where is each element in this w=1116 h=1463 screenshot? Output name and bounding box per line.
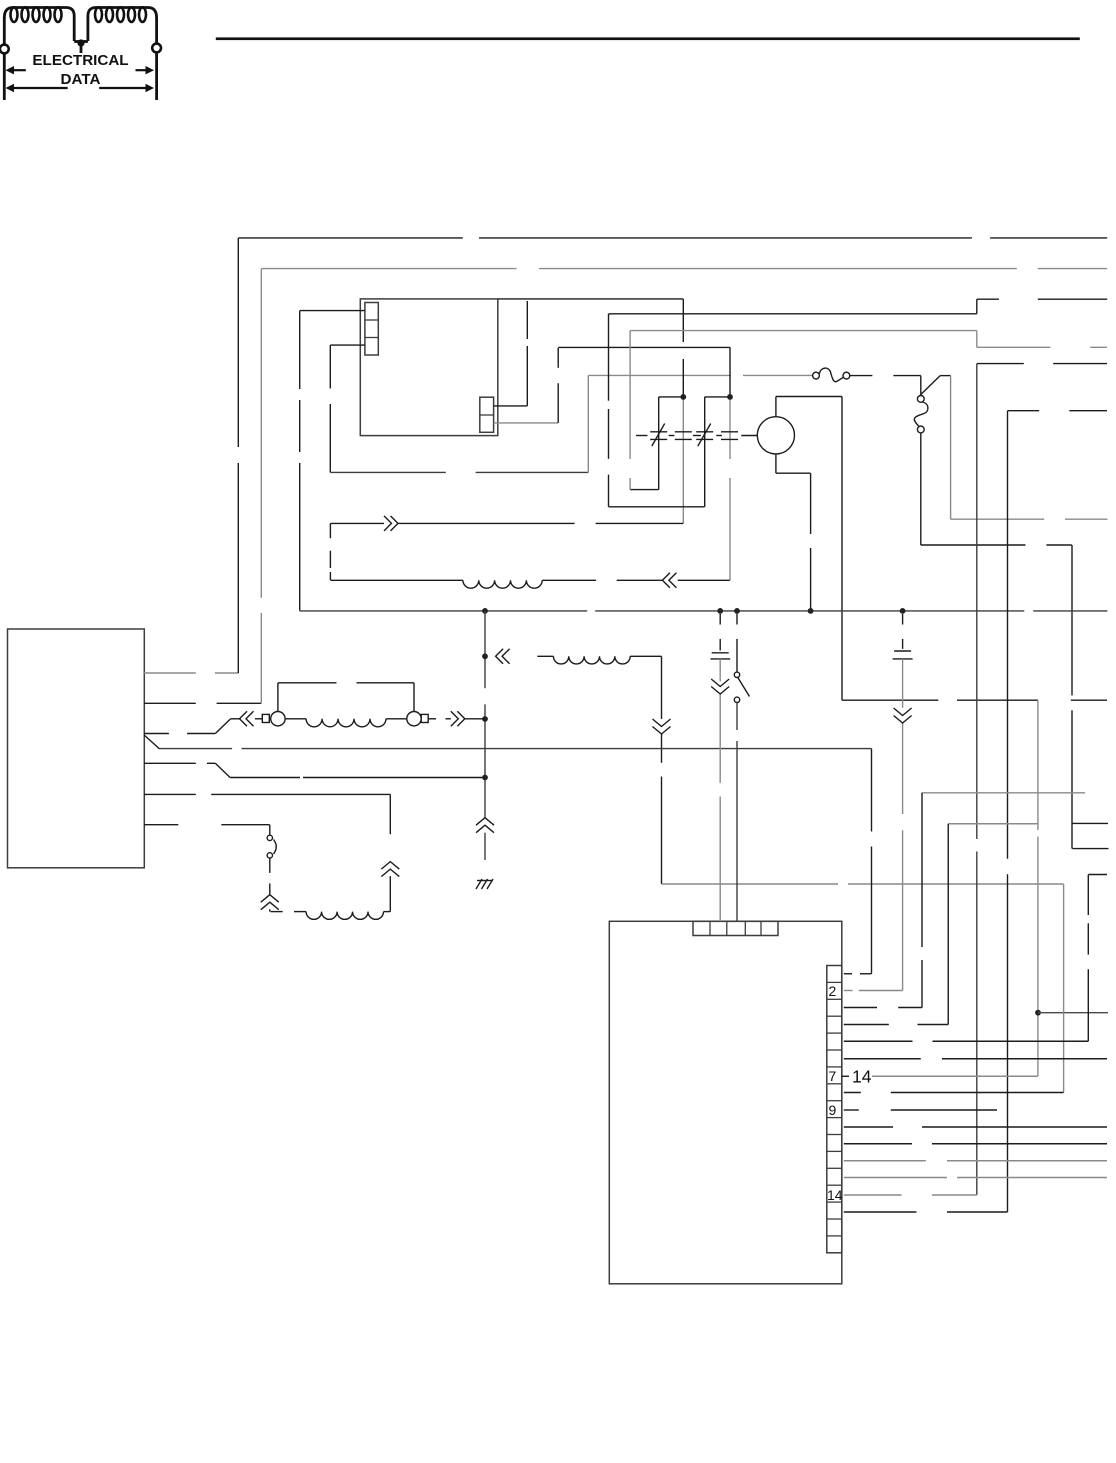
inductor L2 line xyxy=(496,649,662,664)
wire pin1 xyxy=(844,973,852,975)
node dot x485 y656 xyxy=(482,653,488,659)
wire bus y238 top xyxy=(238,237,462,239)
header rule xyxy=(216,37,1080,40)
wire stub y397 left pair xyxy=(659,396,684,398)
wire pin14 xyxy=(844,1194,902,1196)
wire vertical x922 xyxy=(921,793,923,947)
wire pin7 label 14 xyxy=(842,1067,1038,1087)
wire vertical x1064 gray xyxy=(1063,884,1065,1093)
wire J1 pin3 lead xyxy=(330,344,365,346)
points P3 vertical xyxy=(704,397,706,507)
wire vertical x588 gray xyxy=(587,375,589,472)
inductor L4 between lamps xyxy=(285,719,407,727)
wire vertical x661 with connector xyxy=(653,656,671,884)
node dot x485 y719 xyxy=(482,716,488,722)
wire pin2 xyxy=(844,990,853,992)
wire y748 xyxy=(160,748,233,750)
wire cap row dashes y435 xyxy=(636,435,648,437)
wire vertical x1088 xyxy=(1087,875,1089,916)
wire bus y268 gray xyxy=(261,268,516,270)
wire vertical x683 (points unit 2) xyxy=(682,299,684,342)
wire vertical x977 xyxy=(976,364,978,839)
wire C2 down gray with connector xyxy=(894,659,912,991)
node dot x1038 y1013 xyxy=(1035,1010,1041,1016)
svg-text:9: 9 xyxy=(829,1102,837,1118)
module U1 (engine control module) xyxy=(360,299,498,436)
node dot bus x902 xyxy=(900,608,906,614)
wire vertical x842 xyxy=(841,397,843,701)
wire vertical x1007 xyxy=(1007,411,1009,859)
wire y874 right xyxy=(1088,874,1107,876)
wire vertical x608 xyxy=(608,314,610,401)
wire stub y397 right pair xyxy=(705,396,730,398)
switch S3 xyxy=(267,825,276,858)
node dot x730 y397 xyxy=(727,394,733,400)
wire lamp bypass xyxy=(278,683,414,712)
wire y410 right xyxy=(1008,410,1040,412)
wire pin8 xyxy=(844,1092,861,1094)
wire y489 left xyxy=(630,489,659,491)
node dot x683 y397 xyxy=(680,394,686,400)
wire y299 right xyxy=(977,298,999,300)
wire y298 horizontal xyxy=(498,298,684,300)
wire gray x950 down xyxy=(950,376,952,520)
wire y823 right xyxy=(1072,822,1108,824)
wire y347 horizontal xyxy=(558,346,730,348)
wire vertical x238 xyxy=(237,238,239,447)
points P1 plates xyxy=(650,424,667,447)
switch S1 blade xyxy=(921,376,951,396)
wire U2 pin5 lead xyxy=(144,763,230,777)
wire y313 right xyxy=(609,313,977,315)
svg-text:ELECTRICAL: ELECTRICAL xyxy=(32,52,128,69)
wire pin3 xyxy=(844,1007,877,1009)
wire U2 pin2 to node V261 xyxy=(144,702,196,704)
lamp DS2 xyxy=(407,712,428,726)
wire J1 pin1 lead xyxy=(300,310,365,312)
wire vertical x300 xyxy=(299,311,301,389)
wire U2 pin4 diag xyxy=(144,735,160,749)
wire y506 left xyxy=(609,506,705,508)
capacitor C1 xyxy=(710,614,730,659)
wire vertical x330 upper xyxy=(329,345,331,388)
module U2 (regulator box) xyxy=(8,629,145,868)
svg-text:7: 7 xyxy=(829,1068,837,1084)
wire vertical x485 xyxy=(484,611,486,688)
motor M1 xyxy=(757,417,794,454)
wire y363 right xyxy=(977,363,1024,365)
wire vertical x730 (points unit 4) xyxy=(729,347,731,397)
wire y700 right xyxy=(842,699,938,701)
connector J2 (U1 lower-right, 2-pin) xyxy=(480,397,494,432)
wire pin10 xyxy=(844,1126,893,1128)
wire vertical x810 xyxy=(810,473,812,534)
wire vertical x527 xyxy=(526,301,528,339)
node dot bus x485 xyxy=(482,608,488,614)
wire jog x977 gray xyxy=(976,331,978,348)
wire pin5 xyxy=(844,1040,913,1042)
connector chevron left lamp xyxy=(240,711,248,726)
wire y545 xyxy=(921,544,1026,546)
wire lamp2 to connector xyxy=(428,711,485,726)
wire y792 gray xyxy=(922,792,1085,794)
connector J4 (U3 right edge pin strip) xyxy=(827,966,842,1253)
wire S2 down xyxy=(736,703,738,731)
wire main bus y611 xyxy=(300,610,588,612)
node dot x485 y777 xyxy=(482,775,488,781)
lamp DS1 xyxy=(262,712,285,726)
wire CB1 to S1 xyxy=(850,375,873,377)
svg-text:2: 2 xyxy=(829,983,837,999)
wire vertical x1038 gray (wire 14) xyxy=(1037,700,1039,830)
wire M1 top xyxy=(776,397,842,417)
wire pin11 xyxy=(844,1143,912,1145)
wire U2 pin7 lead xyxy=(144,824,178,826)
wire pin9 xyxy=(844,1109,859,1111)
wire pin13 xyxy=(844,1177,947,1179)
wire pin4 xyxy=(844,1024,889,1026)
node dot bus x810 xyxy=(808,608,814,614)
wire y884 gray xyxy=(662,883,839,885)
wire pin6 xyxy=(844,1058,921,1060)
wire vertical x390 xyxy=(381,794,399,911)
wire y330 gray right xyxy=(630,330,977,332)
node dot bus x720 xyxy=(717,608,723,614)
wire vertical x1072 xyxy=(1071,545,1073,695)
wire pin15 xyxy=(844,1211,917,1213)
wire y777 xyxy=(230,777,300,779)
node dot bus x737 xyxy=(734,608,740,614)
wire vertical x630 gray xyxy=(629,331,631,459)
wire C1 down gray with connector xyxy=(711,659,729,921)
wire J2 pin1 lead xyxy=(494,405,528,407)
wire y1013 right xyxy=(1038,1012,1108,1014)
wire S3 down with connector xyxy=(261,858,279,912)
connector J3 (U3 top, 5-pin) xyxy=(693,921,778,935)
switch S2 xyxy=(734,614,749,703)
svg-text:14: 14 xyxy=(827,1187,843,1203)
wire pin12 xyxy=(844,1160,926,1162)
svg-text:14: 14 xyxy=(852,1067,872,1087)
capacitor C2 xyxy=(893,614,913,659)
wire y472 horizontal xyxy=(330,471,446,473)
connector J1 (U1 left, 3-pin) xyxy=(365,303,378,356)
wire gray y519 to edge xyxy=(951,518,1045,520)
inductor L1 line xyxy=(330,573,729,588)
points P2 plates xyxy=(675,432,692,440)
svg-text:DATA: DATA xyxy=(61,71,101,88)
wire y848 right xyxy=(1072,848,1108,850)
wire vertical x871 xyxy=(871,749,873,832)
points P4 plates xyxy=(721,432,738,440)
ground G1 xyxy=(476,879,493,889)
wire U2 pin1 to node V238 xyxy=(144,672,196,674)
wire U2 pin3 lead xyxy=(144,719,240,734)
wire jog x977 black xyxy=(976,299,978,314)
inductor L3 xyxy=(271,912,391,920)
wire fuse feed y375 xyxy=(588,374,731,376)
points P3 plates xyxy=(696,424,713,447)
circuit breaker CB1 (horizontal) xyxy=(813,368,850,382)
transformer T1 logo (ELECTRICAL DATA) xyxy=(0,7,161,100)
wire y347 gray right xyxy=(977,346,1051,348)
points P1 vertical xyxy=(658,397,660,490)
wire J2 pin2 lead xyxy=(494,422,558,424)
wire y523 with connector xyxy=(330,516,683,580)
connector chevron x485 up xyxy=(476,818,494,826)
module U3 (printed circuit board) xyxy=(609,921,842,1284)
wire U2 pin6 lead xyxy=(144,793,196,795)
wire vertical x948 xyxy=(947,824,949,1025)
wire vertical x558 xyxy=(557,348,559,368)
wire to lamp1 xyxy=(255,718,262,720)
wire y823 gray xyxy=(948,823,1038,825)
wire vertical x261 xyxy=(260,269,262,598)
wire CB2 down x921 xyxy=(920,433,922,545)
circuit breaker CB2 (vertical) xyxy=(914,396,928,433)
wire M1 bottom xyxy=(776,454,811,473)
